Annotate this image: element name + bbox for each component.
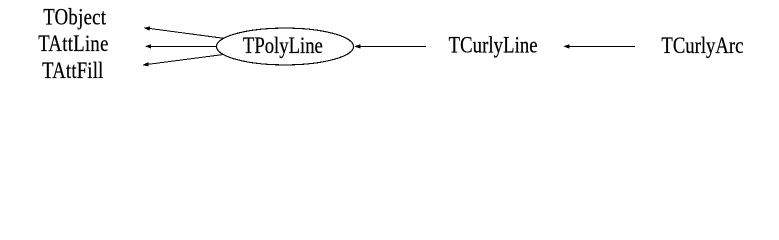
arrowhead to TPolyLine <box>354 44 360 48</box>
wire TPolyLine to TObject <box>146 28 224 38</box>
wire TPolyLine to TAttLine <box>147 45 217 47</box>
ellipse TPolyLine <box>217 28 354 65</box>
wire TPolyLine to TAttFill <box>145 55 224 65</box>
arrowhead to TAttLine <box>145 44 151 48</box>
svg-text:TPolyLine: TPolyLine <box>243 32 323 58</box>
wire TCurlyLine to TPolyLine <box>357 45 426 47</box>
svg-text:TAttLine: TAttLine <box>38 30 108 56</box>
arrowhead to TCurlyLine <box>563 44 569 48</box>
svg-text:TCurlyLine: TCurlyLine <box>449 32 538 58</box>
svg-text:TObject: TObject <box>43 4 106 30</box>
arrowhead to TAttFill <box>143 62 149 66</box>
wire TCurlyArc to TCurlyLine <box>566 45 635 47</box>
arrowhead to TObject <box>144 26 151 30</box>
svg-text:TAttFill: TAttFill <box>42 57 103 83</box>
svg-text:TCurlyArc: TCurlyArc <box>661 32 743 58</box>
